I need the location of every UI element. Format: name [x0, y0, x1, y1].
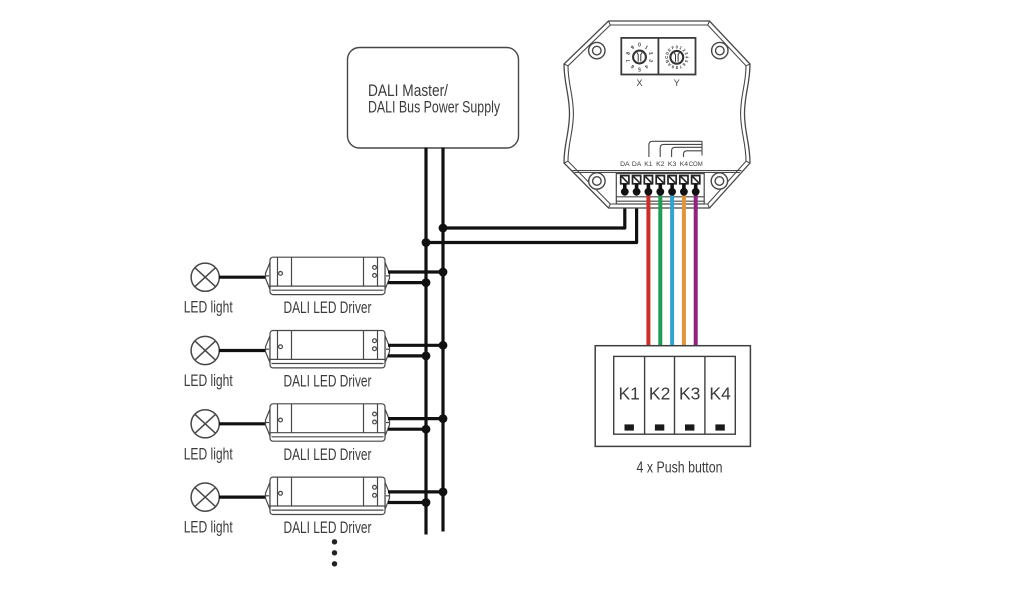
- svg-text:5: 5: [638, 65, 641, 71]
- svg-text:DALI LED Driver: DALI LED Driver: [284, 518, 372, 537]
- svg-text:LED light: LED light: [184, 371, 233, 390]
- svg-text:DALI Bus Power Supply: DALI Bus Power Supply: [368, 97, 500, 116]
- svg-text:DA: DA: [620, 161, 630, 168]
- svg-text:X: X: [636, 78, 642, 88]
- svg-text:4 x Push button: 4 x Push button: [637, 460, 723, 477]
- svg-text:DALI LED Driver: DALI LED Driver: [284, 298, 372, 317]
- svg-text:K2: K2: [656, 161, 665, 168]
- svg-text:LED light: LED light: [184, 444, 233, 463]
- svg-text:Y: Y: [674, 78, 680, 88]
- svg-text:K4: K4: [680, 161, 689, 168]
- svg-text:K1: K1: [644, 161, 653, 168]
- svg-text:LED light: LED light: [184, 298, 233, 317]
- svg-text:0: 0: [638, 43, 641, 49]
- svg-text:LED light: LED light: [184, 518, 233, 537]
- svg-text:DA: DA: [632, 161, 642, 168]
- svg-text:K2: K2: [649, 384, 670, 404]
- svg-text:K3: K3: [668, 161, 677, 168]
- svg-text:K4: K4: [709, 384, 731, 404]
- svg-text:K3: K3: [679, 384, 700, 404]
- svg-text:DALI LED Driver: DALI LED Driver: [284, 372, 372, 391]
- svg-text:DALI LED Driver: DALI LED Driver: [284, 445, 372, 464]
- svg-text:K1: K1: [618, 384, 639, 404]
- svg-text:COM: COM: [689, 161, 703, 168]
